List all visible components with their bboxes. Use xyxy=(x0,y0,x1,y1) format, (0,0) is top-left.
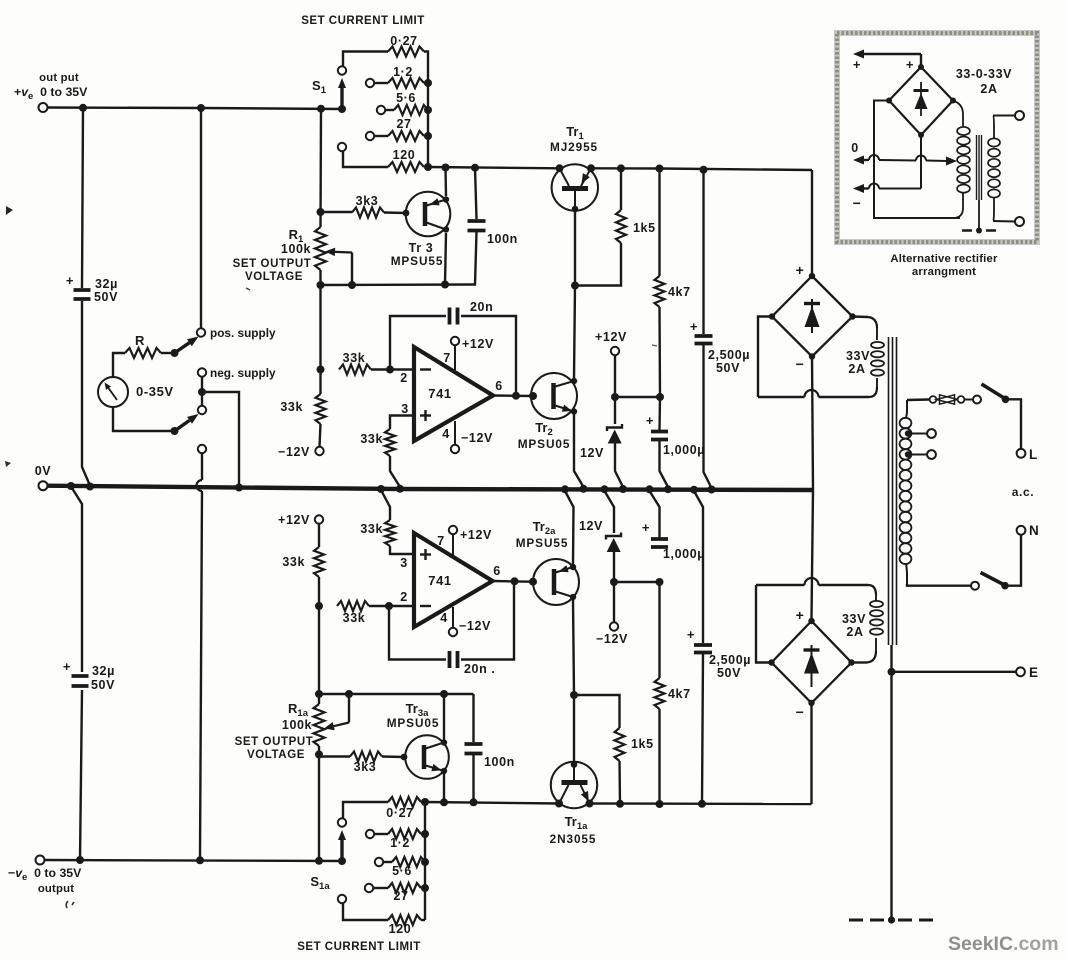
inset transformer secondary winding xyxy=(953,101,963,127)
svg-text:−: − xyxy=(796,704,805,720)
contact 1.2 bottom xyxy=(366,830,374,838)
contact 1.2 xyxy=(366,79,374,87)
resistor 4k7 top xyxy=(658,169,660,277)
terminal L xyxy=(1017,449,1026,458)
svg-text:4k7: 4k7 xyxy=(668,687,691,701)
svg-text:1,000µ: 1,000µ xyxy=(663,443,705,457)
svg-text:MJ2955: MJ2955 xyxy=(550,140,598,154)
wire Tr3a collector up to node line xyxy=(443,694,445,740)
inset + output arrow xyxy=(864,53,921,55)
svg-text:N: N xyxy=(1029,523,1039,538)
wire primary bottom to N switch xyxy=(907,584,971,586)
svg-text:4k7: 4k7 xyxy=(668,285,691,299)
transistor Tr3a MPSU05 xyxy=(405,735,449,779)
resistor 120 xyxy=(343,152,388,168)
terminal -12V mid xyxy=(610,622,618,630)
wire 0V bus (thick) xyxy=(47,486,813,490)
svg-text:0V: 0V xyxy=(35,464,52,478)
svg-text:−12V: −12V xyxy=(596,632,628,646)
svg-text:33V: 33V xyxy=(846,349,870,363)
resistor R (meter series) xyxy=(113,353,125,377)
resistor 1k5 top xyxy=(620,168,622,210)
svg-text:+12V: +12V xyxy=(278,513,310,527)
svg-text:100k: 100k xyxy=(282,718,312,732)
svg-text:R: R xyxy=(135,333,145,348)
inset ground xyxy=(978,200,980,228)
svg-text:1·2: 1·2 xyxy=(393,65,413,79)
resistor 0.27 xyxy=(343,52,388,67)
capacitor 32u 50V top xyxy=(74,288,91,292)
svg-text:1·2: 1·2 xyxy=(390,836,410,850)
svg-text:+: + xyxy=(646,413,654,428)
terminal +12V mid xyxy=(611,347,619,355)
wire link zener to 1000u bottom xyxy=(614,581,660,583)
diode zener 12V bottom xyxy=(606,533,621,540)
switch mains N xyxy=(971,582,979,590)
wire Tr2 emitter to bus xyxy=(574,414,584,487)
rectifier bridge bottom xyxy=(772,621,852,703)
wire bottom rail xyxy=(425,802,559,804)
svg-text:2: 2 xyxy=(400,590,408,604)
svg-text:2,500µ: 2,500µ xyxy=(708,348,750,362)
svg-text:VOLTAGE: VOLTAGE xyxy=(245,271,303,283)
node junctions on -Ve line xyxy=(76,856,84,864)
inset box border xyxy=(837,33,1037,242)
inset - output arrow with hop xyxy=(920,135,922,189)
resistor 1.2 xyxy=(374,82,388,84)
contact neg. supply xyxy=(198,368,206,376)
pin 7 +12V op2 xyxy=(452,534,454,556)
wire base-drive node top (R1 bottom to 100n) xyxy=(321,283,475,286)
svg-text:50V: 50V xyxy=(717,666,741,680)
node junction on +Ve line at 32u column xyxy=(79,104,87,112)
ground symbol (dashed) xyxy=(849,919,933,922)
svg-text:4: 4 xyxy=(442,427,450,441)
svg-text:E: E xyxy=(1029,665,1039,680)
diode inside bridge top xyxy=(811,299,813,333)
svg-text:−: − xyxy=(796,356,805,372)
terminal N xyxy=(1017,526,1026,535)
wire R1a column to -Ve line xyxy=(318,755,320,861)
svg-text:+: + xyxy=(853,57,861,72)
svg-text:6: 6 xyxy=(493,564,501,578)
svg-text:32µ: 32µ xyxy=(92,664,115,678)
switch mains L xyxy=(973,396,981,404)
svg-text:0-35V: 0-35V xyxy=(136,384,174,399)
resistor 3k3 top xyxy=(321,211,353,213)
terminal 0V xyxy=(39,481,48,490)
resistor 27 xyxy=(374,135,388,137)
svg-text:+12V: +12V xyxy=(460,528,492,542)
terminal +Ve output xyxy=(39,103,48,112)
terminal E xyxy=(1016,667,1025,676)
svg-text:12V: 12V xyxy=(580,446,604,460)
resistor 33k op1 non-inverting to bus xyxy=(390,416,412,430)
op-amp U1 741 top xyxy=(414,347,493,441)
node 3k3 bottom junction xyxy=(315,751,323,759)
transformer primary winding (mains) xyxy=(906,400,907,417)
fuse in L line xyxy=(930,396,937,403)
wire 1k5 bottom link xyxy=(575,243,621,286)
resistor 0.27 bottom xyxy=(343,802,388,818)
wire Tr2a emitter up to bus xyxy=(565,491,574,564)
svg-text:SET OUTPUT: SET OUTPUT xyxy=(233,258,312,270)
svg-text:12V: 12V xyxy=(579,519,603,533)
contact 27 xyxy=(366,132,374,140)
contact S1 top (0.27) xyxy=(338,66,346,74)
svg-text:+: + xyxy=(796,262,805,278)
svg-text:L: L xyxy=(1029,447,1038,462)
wire zener column bottom xyxy=(605,491,615,533)
wire 1k5 bottom link xyxy=(574,695,620,728)
svg-text:Tr 3: Tr 3 xyxy=(409,241,434,255)
svg-text:50V: 50V xyxy=(94,290,118,304)
contact S1a top (0.27) xyxy=(338,818,346,826)
svg-text:2A: 2A xyxy=(980,82,997,96)
svg-text:MPSU55: MPSU55 xyxy=(516,536,569,550)
terminal -12V (op1 divider) xyxy=(315,447,323,455)
inset primary terminals xyxy=(993,115,1015,117)
switch S1 lever xyxy=(338,105,346,113)
svg-text:VOLTAGE: VOLTAGE xyxy=(247,749,305,761)
contact S1 bottom (120) xyxy=(338,143,346,151)
wire bridge - down to 0V bus xyxy=(812,357,813,491)
svg-text:−12V: −12V xyxy=(461,431,493,445)
svg-text:120: 120 xyxy=(393,148,416,162)
resistor 5.6 xyxy=(385,109,394,111)
svg-text:3k3: 3k3 xyxy=(356,194,379,208)
svg-text:50V: 50V xyxy=(716,361,740,375)
svg-text:33-0-33V: 33-0-33V xyxy=(956,67,1012,81)
svg-text:2N3055: 2N3055 xyxy=(550,832,597,846)
wire R1a node line xyxy=(319,693,474,695)
pin 4 -12V op2 xyxy=(452,607,454,628)
switch S1a lever xyxy=(338,857,346,865)
svg-text:MPSU05: MPSU05 xyxy=(387,716,440,730)
node 32u top to bus xyxy=(86,483,94,491)
svg-text:MPSU55: MPSU55 xyxy=(391,254,444,268)
svg-text:741: 741 xyxy=(428,573,452,588)
svg-text:1,000µ: 1,000µ xyxy=(663,547,705,561)
wire rail corner down to bridge + xyxy=(811,170,813,273)
pin 6 output op2 xyxy=(493,580,532,583)
wire to L terminal xyxy=(1006,399,1022,449)
capacitor 100n top xyxy=(468,219,486,223)
wire tap2 to contact xyxy=(910,454,927,456)
wire R1 column from +Ve line xyxy=(319,109,322,227)
svg-text:0·27: 0·27 xyxy=(390,34,417,48)
svg-text:3: 3 xyxy=(400,556,408,570)
svg-text:120: 120 xyxy=(389,922,412,936)
inset transformer primary winding xyxy=(993,116,994,140)
node primary tap 1 xyxy=(905,430,911,436)
rectifier bridge top xyxy=(772,276,853,357)
wire 0V bus end down to bottom bridge + xyxy=(812,490,814,618)
capacitor 20n op2 feedback xyxy=(389,606,446,660)
contact 27 bottom xyxy=(365,884,373,892)
svg-text:out put: out put xyxy=(39,72,79,84)
diode inside bridge bottom xyxy=(811,645,813,687)
inset wire left vertex loop xyxy=(874,101,960,219)
svg-text:3: 3 xyxy=(401,402,409,416)
svg-text:Alternative rectifier: Alternative rectifier xyxy=(890,253,998,265)
switch lever meter pole1 xyxy=(171,349,179,357)
resistor 33k op2 inverting input xyxy=(337,601,369,611)
resistor 33k to -12V xyxy=(316,394,326,424)
svg-text:0·27: 0·27 xyxy=(386,806,413,820)
svg-text:741: 741 xyxy=(428,386,452,401)
svg-text:33k: 33k xyxy=(360,432,383,446)
wire primary top to fuse xyxy=(907,398,929,401)
svg-text:20n: 20n xyxy=(470,300,493,314)
svg-text:33k: 33k xyxy=(343,351,366,365)
svg-text:1k5: 1k5 xyxy=(633,221,656,235)
svg-text:+: + xyxy=(642,520,650,535)
node 32u bottom to bus xyxy=(67,482,75,490)
svg-text:5·6: 5·6 xyxy=(392,864,412,878)
capacitor 2500u 50V bottom xyxy=(694,491,703,643)
contact to -Ve supply xyxy=(198,445,206,453)
wire -Ve output bottom line xyxy=(44,860,342,861)
svg-text:+: + xyxy=(690,319,698,334)
svg-text:SeekIC.com: SeekIC.com xyxy=(948,933,1059,955)
wire bridge left loop to transformer secondary bottom xyxy=(758,317,772,398)
pin 4 -12V op1 xyxy=(454,421,456,445)
wire 32u top column xyxy=(82,108,83,288)
svg-text:output: output xyxy=(38,883,74,895)
pin 7 +12V op1 xyxy=(454,345,456,370)
transformer core laminations xyxy=(888,337,890,645)
svg-text:+12V: +12V xyxy=(595,330,627,344)
wire +Ve output top line xyxy=(47,108,342,110)
capacitor 2500u 50V top xyxy=(702,170,704,334)
capacitor 100n bottom xyxy=(472,694,474,742)
svg-text:33k: 33k xyxy=(282,555,305,569)
resistor 5.6 bottom xyxy=(383,861,392,863)
op-amp U2 741 bottom xyxy=(414,533,493,627)
wire bottom bridge right to secondary bottom xyxy=(852,661,868,663)
inset core xyxy=(976,135,978,200)
wire bridge - down to bottom rail corner xyxy=(810,703,812,804)
resistor 33k op2 divider xyxy=(318,524,320,547)
resistor 3k3 bottom xyxy=(319,755,350,757)
pin 6 output op1 xyxy=(493,394,531,397)
svg-text:7: 7 xyxy=(437,534,445,548)
svg-text:arrangment: arrangment xyxy=(912,266,976,278)
svg-text:7: 7 xyxy=(443,351,451,365)
wire bottom bridge left loop to secondary top xyxy=(756,585,772,663)
wire Tr1 base / Tr2 collector column xyxy=(574,209,576,286)
contact 5.6 bottom xyxy=(375,858,383,866)
wire tap1 to contact xyxy=(910,433,927,435)
contact meter pole2 upper xyxy=(198,406,206,414)
wire R1 column down to 33k divider xyxy=(319,285,321,394)
wire 32u bottom column xyxy=(71,487,82,673)
svg-text:−: − xyxy=(853,195,862,211)
contact 5.6 xyxy=(377,106,385,114)
svg-text:0: 0 xyxy=(851,141,859,155)
svg-text:+: + xyxy=(63,659,71,674)
capacitor 1000u top xyxy=(658,397,661,430)
svg-text:100n: 100n xyxy=(484,755,515,769)
svg-text:−12V: −12V xyxy=(278,445,310,459)
wire Tr2a collector / Tr1a base column xyxy=(573,600,574,695)
resistor 1.2 bottom xyxy=(374,833,388,835)
inset diode xyxy=(920,82,922,116)
wire Tr3a emitter down to rail xyxy=(443,773,445,802)
meter 0-35V xyxy=(98,377,128,407)
wire core to earth/E xyxy=(890,645,892,920)
svg-text:+: + xyxy=(687,627,695,642)
svg-text:27: 27 xyxy=(396,117,411,131)
transistor Tr3 MPSU55 xyxy=(406,192,451,237)
svg-text:+: + xyxy=(796,607,805,623)
potentiometer R1 100k xyxy=(315,227,326,270)
svg-text:2,500µ: 2,500µ xyxy=(709,653,751,667)
svg-text:100k: 100k xyxy=(281,242,311,256)
svg-text:2: 2 xyxy=(400,371,408,385)
scan speck artifacts xyxy=(6,206,13,215)
svg-text:2A: 2A xyxy=(848,362,865,376)
svg-text:33k: 33k xyxy=(343,611,366,625)
svg-text:5·6: 5·6 xyxy=(396,91,416,105)
svg-text:1k5: 1k5 xyxy=(631,737,654,751)
node 3k3 junction xyxy=(317,208,325,216)
capacitor 1000u bottom xyxy=(650,491,660,538)
svg-text:MPSU05: MPSU05 xyxy=(518,437,571,451)
resistor 33k op1 inverting input xyxy=(339,365,371,375)
svg-text:20n .: 20n . xyxy=(464,662,496,676)
svg-text:SET CURRENT LIMIT: SET CURRENT LIMIT xyxy=(297,941,421,953)
transistor Tr2 MPSU05 xyxy=(531,373,577,419)
svg-text:27: 27 xyxy=(393,889,408,903)
svg-text:33k: 33k xyxy=(360,522,383,536)
wire contact down, hop over bus, to -Ve line xyxy=(201,454,203,481)
wire zener column xyxy=(614,355,616,424)
svg-text:+: + xyxy=(906,57,914,72)
svg-text:100n: 100n xyxy=(487,232,518,246)
wire to N terminal xyxy=(1005,535,1021,586)
capacitor 20n op1 feedback xyxy=(390,316,446,370)
svg-text:6: 6 xyxy=(495,379,503,393)
wire meter bottom xyxy=(113,407,174,431)
wire link zener to 1000u column xyxy=(615,396,660,398)
svg-text:4: 4 xyxy=(440,611,448,625)
terminal +12V (op2 divider) xyxy=(315,515,323,523)
inset 0 output arrow with hops xyxy=(864,159,868,161)
transistor Tr1a 2N3055 xyxy=(551,762,597,808)
potentiometer R1a 100k xyxy=(314,704,325,746)
svg-text:+: + xyxy=(66,273,74,288)
wire neg supply contact to 0V bus xyxy=(201,377,203,406)
inset rectifier bridge xyxy=(889,67,953,135)
resistor 4k7 bottom xyxy=(658,582,660,678)
svg-text:50V: 50V xyxy=(91,678,115,692)
transformer secondary 33V 2A bottom winding xyxy=(875,595,877,601)
terminal -Ve output xyxy=(36,856,45,865)
capacitor 32u 50V bottom xyxy=(72,674,89,678)
switch lever meter pole2 xyxy=(171,427,179,435)
wire pos supply contact up to +Ve line xyxy=(200,108,202,328)
wire 100n top column xyxy=(475,168,477,219)
svg-text:a.c.: a.c. xyxy=(1012,485,1034,499)
svg-text:SET CURRENT LIMIT: SET CURRENT LIMIT xyxy=(301,15,425,27)
svg-text:+12V: +12V xyxy=(462,337,494,351)
svg-text:33k: 33k xyxy=(280,400,303,414)
resistor 1k5 bottom xyxy=(615,728,625,761)
node junction on +Ve line at meter pos-supply column xyxy=(197,104,205,112)
resistor 120 bottom xyxy=(343,904,388,921)
svg-text:−12V: −12V xyxy=(459,619,491,633)
diode zener 12V top xyxy=(607,424,622,431)
svg-text:pos. supply: pos. supply xyxy=(210,326,276,340)
resistor 33k op2 non-inverting to bus xyxy=(381,490,390,520)
svg-text:neg. supply: neg. supply xyxy=(210,366,276,380)
contact pos. supply xyxy=(197,328,205,336)
wire Tr3 collector down to base-drive node xyxy=(445,233,446,285)
wire bridge right to transformer secondary top xyxy=(853,315,869,318)
node junction on +Ve line at R1 column xyxy=(317,105,325,113)
svg-text:SET OUTPUT: SET OUTPUT xyxy=(235,736,314,748)
svg-text:3k3: 3k3 xyxy=(354,760,377,774)
transistor Tr1 MJ2955 xyxy=(552,164,598,210)
resistor 27 bottom xyxy=(373,887,388,889)
svg-text:33V: 33V xyxy=(842,612,866,626)
transformer secondary 33V 2A top winding xyxy=(876,328,878,340)
svg-text:32µ: 32µ xyxy=(95,277,118,291)
svg-text:2A: 2A xyxy=(846,625,863,639)
node primary tap 2 xyxy=(905,451,911,457)
wire Tr3 emitter to top rail xyxy=(444,168,447,197)
wire top rail from current limit to rectifier + xyxy=(428,167,559,168)
transistor Tr2a MPSU55 xyxy=(533,559,579,605)
contact S1a bottom (120) xyxy=(338,895,346,903)
